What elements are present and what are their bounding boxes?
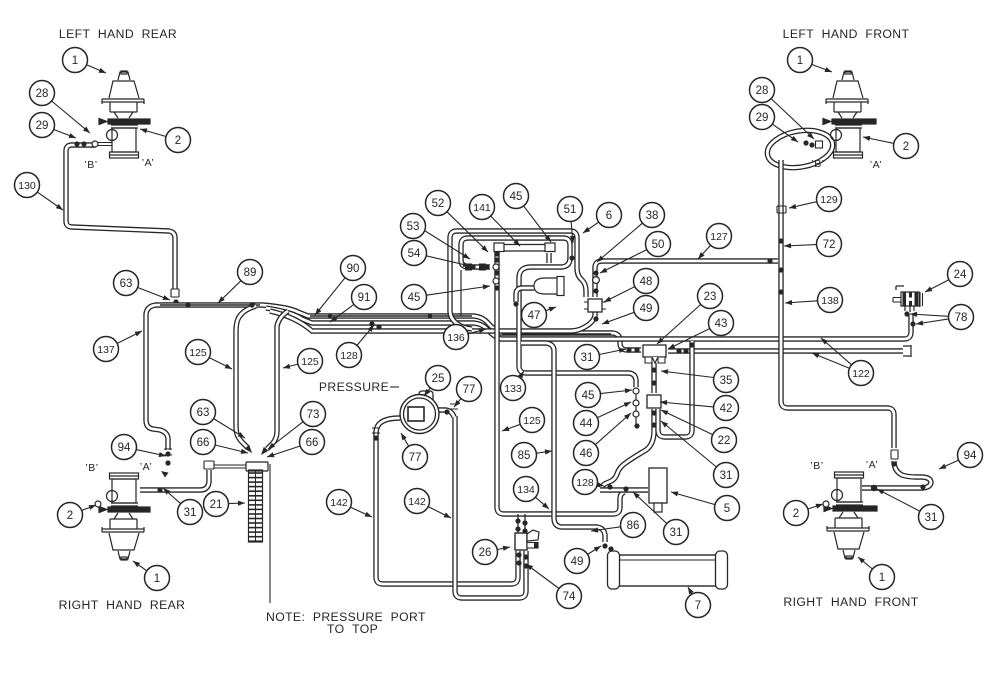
fitting ball	[626, 347, 631, 352]
balloon 38	[640, 203, 665, 228]
fitting ball	[515, 526, 520, 531]
svg-text:94: 94	[118, 442, 131, 454]
pressure tick	[390, 386, 399, 388]
fitting ring	[92, 141, 98, 147]
leader 28b	[771, 99, 814, 139]
svg-text:54: 54	[408, 248, 421, 260]
gauge left conn	[376, 418, 400, 433]
stub 141 right cap	[546, 253, 551, 263]
dark center 90	[310, 315, 472, 317]
fitting ball	[683, 348, 688, 353]
balloon 6	[597, 203, 622, 228]
svg-text:49: 49	[640, 303, 653, 315]
leader 129	[789, 202, 817, 208]
balloon 137	[94, 337, 119, 362]
fitting ball	[471, 265, 475, 269]
fitting ball	[891, 461, 896, 466]
svg-text:73: 73	[307, 409, 320, 421]
svg-text:28: 28	[756, 85, 769, 97]
fitting ring	[633, 411, 639, 417]
svg-text:1: 1	[879, 572, 885, 584]
balloon 142	[327, 490, 352, 515]
svg-text:141: 141	[473, 202, 491, 214]
svg-text:1: 1	[797, 55, 803, 67]
svg-text:142: 142	[408, 496, 426, 508]
balloon 122	[849, 361, 874, 386]
balloon 1	[145, 566, 170, 591]
leader 54	[426, 256, 470, 266]
fitting ball	[904, 311, 909, 316]
svg-text:66: 66	[197, 437, 210, 449]
thin stub x461	[460, 270, 462, 316]
svg-text:1: 1	[154, 573, 160, 585]
svg-text:122: 122	[852, 368, 870, 380]
leader 74	[526, 564, 559, 589]
balloon 63	[191, 400, 216, 425]
svg-text:’B’: ’B’	[810, 460, 823, 472]
leader 125a	[209, 358, 232, 369]
balloon 130	[15, 173, 40, 198]
tube RHR A	[140, 470, 209, 490]
fitting ball	[689, 342, 694, 347]
balloon 89	[238, 260, 263, 285]
fitting ball	[165, 451, 170, 456]
balloon 51	[558, 197, 583, 222]
coiled hose item 21	[249, 470, 263, 542]
fitting ball	[910, 321, 915, 326]
leader 134	[535, 497, 549, 509]
leader 1a	[87, 65, 107, 73]
balloon 35	[714, 368, 739, 393]
svg-text:125: 125	[301, 356, 319, 368]
balloon 72	[817, 232, 842, 257]
svg-text:26: 26	[479, 547, 492, 559]
balloon 7	[686, 593, 711, 618]
svg-text:31: 31	[720, 470, 733, 482]
balloon 44	[574, 411, 599, 436]
balloon 136	[444, 325, 469, 350]
link to coil	[214, 464, 246, 466]
fitting ball	[513, 301, 518, 306]
balloon 45	[402, 285, 427, 310]
tube n-loop	[658, 341, 692, 437]
leader 85	[536, 451, 552, 453]
balloon 47	[522, 303, 547, 328]
fitting ball	[608, 546, 613, 551]
leader 28a	[52, 101, 90, 133]
fitting ball	[185, 302, 190, 307]
fitting ring	[493, 278, 499, 284]
svg-text:2: 2	[793, 508, 799, 520]
svg-text:RIGHT HAND REAR: RIGHT HAND REAR	[59, 598, 186, 612]
valve RH rear	[99, 473, 150, 560]
tube 130	[66, 145, 175, 289]
svg-text:22: 22	[718, 435, 731, 447]
svg-text:74: 74	[563, 591, 576, 603]
balloon 125	[298, 349, 323, 374]
fitting ball	[516, 552, 521, 557]
svg-text:63: 63	[197, 407, 210, 419]
leader 94b	[939, 460, 959, 469]
svg-text:28: 28	[36, 88, 49, 100]
manifold item 26	[515, 533, 527, 550]
svg-text:77: 77	[463, 384, 476, 396]
leader 2a	[140, 129, 166, 137]
balloon 1	[870, 565, 895, 590]
leader 45m	[426, 286, 490, 295]
leader 1b	[133, 561, 147, 571]
balloon 90	[341, 256, 366, 281]
balloon 85	[512, 443, 537, 468]
balloon 31	[664, 520, 689, 545]
leader 29a	[54, 130, 76, 139]
tube 125 right	[267, 311, 288, 449]
balloon 94	[958, 443, 983, 468]
tube chain upper	[651, 363, 656, 393]
fitting ball	[651, 422, 656, 427]
fitting ball	[444, 409, 449, 414]
leader 137	[117, 331, 142, 343]
leader 128b	[597, 485, 604, 486]
tee fitting 42	[647, 395, 661, 408]
leader 127	[698, 245, 711, 259]
svg-text:53: 53	[407, 221, 420, 233]
svg-text:133: 133	[504, 383, 522, 395]
leader 46	[595, 413, 631, 445]
svg-text:38: 38	[646, 210, 659, 222]
leader 94a	[136, 450, 166, 456]
fitting ball	[634, 347, 639, 352]
balloon 23	[698, 284, 723, 309]
fitting ball	[249, 302, 254, 307]
leader 77a	[454, 399, 461, 407]
svg-text:1: 1	[72, 55, 78, 67]
leader 6	[583, 222, 599, 233]
leader 2d	[808, 504, 823, 509]
tube 94 U-turn	[862, 461, 931, 488]
svg-text:6: 6	[606, 210, 612, 222]
fitting ball	[593, 270, 598, 275]
svg-text:31: 31	[184, 507, 197, 519]
balloon 142	[405, 489, 430, 514]
cap end 122	[903, 345, 911, 357]
fitting ball	[809, 142, 814, 147]
svg-text:45: 45	[408, 292, 421, 304]
leader 24	[925, 280, 949, 292]
balloon 31	[714, 463, 739, 488]
tube to manifold 43	[498, 333, 641, 350]
leader 31c	[661, 421, 716, 467]
svg-text:’B’: ’B’	[811, 158, 824, 170]
hose item 141	[503, 245, 546, 252]
fitting ball	[778, 289, 783, 294]
fitting ball	[522, 528, 527, 533]
fitting ring	[633, 388, 639, 394]
valve item 24	[901, 292, 919, 306]
balloon 43	[709, 311, 734, 336]
balloon 46	[574, 441, 599, 466]
svg-text:’A’: ’A’	[866, 459, 878, 471]
leader 2c	[863, 137, 894, 143]
svg-text:PRESSURE: PRESSURE	[319, 380, 389, 394]
leader 125b	[283, 364, 298, 368]
fitting ball	[523, 563, 528, 568]
svg-text:42: 42	[720, 403, 733, 415]
balloon 45	[504, 184, 529, 209]
svg-text:78: 78	[955, 312, 968, 324]
svg-text:7: 7	[695, 600, 701, 612]
leader 89	[218, 281, 241, 303]
svg-text:2: 2	[175, 135, 181, 147]
svg-text:72: 72	[823, 239, 836, 251]
balloon 129	[817, 187, 842, 212]
tube 133 left vert + y514 run	[497, 252, 625, 514]
fitting ball	[485, 265, 489, 269]
leader 42	[660, 402, 714, 407]
leader 1c	[812, 64, 832, 72]
valve LH front	[823, 71, 876, 158]
cap	[204, 461, 214, 469]
svg-text:94: 94	[964, 450, 977, 462]
valve LH rear	[99, 71, 150, 158]
balloon 31	[178, 500, 203, 525]
svg-text:TO TOP: TO TOP	[327, 622, 378, 636]
leader 43	[668, 329, 710, 350]
leader 29b	[772, 124, 798, 142]
leader 21	[229, 502, 246, 505]
balloon 63	[114, 271, 139, 296]
leader 50	[600, 250, 647, 273]
svg-text:51: 51	[564, 204, 577, 216]
tube 127 + x595 upper	[595, 261, 778, 297]
tube 128/49 riser	[270, 311, 595, 331]
svg-text:66: 66	[306, 437, 319, 449]
svg-text:86: 86	[627, 520, 640, 532]
leader 26	[497, 547, 510, 550]
leader 35	[661, 371, 714, 378]
fitting ball	[522, 520, 527, 525]
svg-text:128: 128	[340, 350, 358, 362]
svg-text:125: 125	[189, 347, 207, 359]
leader 63a	[138, 288, 170, 301]
leader 72	[784, 245, 817, 246]
fitting ball	[569, 255, 574, 260]
dark center 89	[160, 304, 260, 306]
tube chain S	[601, 409, 654, 488]
leader 31b	[163, 488, 181, 504]
leader 2b	[82, 505, 96, 511]
svg-text:77: 77	[409, 452, 422, 464]
valve RH front	[824, 472, 877, 559]
fitting ball	[494, 285, 499, 290]
balloon 94	[112, 435, 137, 460]
svg-text:125: 125	[523, 415, 541, 427]
svg-text:31: 31	[670, 527, 683, 539]
balloon 128	[337, 343, 362, 368]
fitting ball	[623, 486, 628, 491]
leader 38	[597, 223, 643, 262]
leader 5	[671, 492, 715, 505]
svg-text:138: 138	[821, 295, 839, 307]
fitting ring	[95, 501, 101, 507]
fitting ball	[602, 543, 607, 548]
svg-text:’B’: ’B’	[84, 159, 97, 171]
balloon 66	[191, 430, 216, 455]
leader 91	[330, 304, 354, 322]
svg-text:48: 48	[640, 276, 653, 288]
leader 66c	[267, 446, 300, 457]
leader 130	[37, 192, 63, 210]
leader 128a	[357, 325, 374, 345]
svg-text:’A’: ’A’	[140, 461, 152, 473]
fitting ball	[173, 299, 178, 304]
leader 73	[268, 422, 303, 449]
svg-text:91: 91	[358, 292, 371, 304]
leader 133	[520, 371, 524, 378]
fitting ball	[515, 518, 520, 523]
fitting ball	[516, 560, 521, 565]
svg-text:136: 136	[447, 332, 465, 344]
svg-text:127: 127	[710, 231, 728, 243]
leader 49	[602, 312, 634, 324]
balloon 42	[714, 396, 739, 421]
fitting ball	[803, 140, 808, 145]
svg-text:31: 31	[925, 512, 938, 524]
svg-text:24: 24	[954, 269, 967, 281]
fitting ball	[778, 267, 783, 272]
leader 52	[447, 212, 488, 252]
leader 138	[785, 301, 818, 303]
fitting ball	[778, 238, 783, 243]
svg-text:47: 47	[528, 310, 541, 322]
balloon 125	[520, 408, 545, 433]
leader 45t	[524, 206, 551, 242]
leader 90	[315, 278, 345, 315]
balloon 127	[707, 224, 732, 249]
balloon 29	[30, 113, 55, 138]
tube 122 lower	[668, 348, 903, 353]
svg-text:50: 50	[652, 239, 665, 251]
svg-text:90: 90	[347, 263, 360, 275]
fitting ball	[767, 258, 772, 263]
fitting ball	[428, 314, 432, 318]
fitting ball	[494, 251, 499, 256]
balloon 2	[784, 501, 809, 526]
svg-text:52: 52	[432, 198, 445, 210]
cap 94	[891, 450, 898, 459]
balloon 48	[634, 269, 659, 294]
leader 142b	[428, 507, 451, 518]
fitting ball	[494, 257, 499, 262]
balloon 24	[948, 262, 973, 287]
balloon 125	[186, 340, 211, 365]
svg-text:23: 23	[704, 291, 717, 303]
leader 31e	[877, 489, 920, 511]
svg-text:46: 46	[580, 448, 593, 460]
fitting ball	[523, 554, 528, 559]
svg-text:5: 5	[724, 503, 730, 515]
leader 125c	[502, 424, 520, 431]
fitting 48	[588, 299, 602, 312]
svg-text:29: 29	[756, 112, 769, 124]
balloon 86	[621, 513, 646, 538]
balloon 5	[715, 496, 740, 521]
svg-text:’A’: ’A’	[870, 159, 882, 171]
leader 47	[546, 307, 556, 311]
leader 48	[604, 287, 635, 302]
branch stub	[635, 390, 637, 426]
balloon 21	[204, 492, 229, 517]
balloon 133	[501, 376, 526, 401]
leader 78	[910, 314, 949, 316]
svg-text:44: 44	[580, 418, 593, 430]
tube 47 feed	[516, 288, 534, 302]
fitting ball	[920, 484, 925, 489]
leader 44	[597, 402, 631, 418]
svg-text:137: 137	[97, 344, 115, 356]
fitting ball	[328, 314, 332, 318]
fit 77b	[372, 428, 380, 433]
svg-text:31: 31	[581, 352, 594, 364]
fitting ball	[651, 367, 656, 372]
muffler item 7	[619, 555, 716, 586]
link to coil 2	[214, 467, 246, 469]
leader 66b	[215, 445, 248, 453]
fitting ball	[494, 270, 499, 275]
svg-text:’A’: ’A’	[142, 157, 154, 169]
balloon 31	[575, 345, 600, 370]
leader 7	[688, 587, 692, 594]
check valve item 47	[534, 278, 558, 294]
svg-text:35: 35	[720, 375, 733, 387]
leader 31d	[633, 492, 667, 524]
balloon 28	[30, 81, 55, 106]
leader 122	[821, 338, 852, 365]
balloon 50	[646, 232, 671, 257]
balloon 53	[401, 214, 426, 239]
fitting ball	[593, 288, 598, 293]
tube 6 outer U	[450, 231, 586, 329]
svg-text:2: 2	[67, 510, 73, 522]
balloon 1	[788, 48, 813, 73]
svg-text:63: 63	[120, 278, 133, 290]
fitting ring	[593, 277, 600, 284]
tube 137	[146, 305, 168, 450]
svg-text:128: 128	[576, 477, 594, 489]
svg-text:43: 43	[715, 318, 728, 330]
svg-text:134: 134	[517, 484, 535, 496]
svg-text:45: 45	[510, 191, 523, 203]
svg-text:’B’: ’B’	[85, 462, 98, 474]
leader 86	[591, 527, 621, 531]
fitting ball	[676, 348, 681, 353]
valve item 5	[649, 468, 667, 503]
leader 142a	[350, 507, 372, 517]
balloon 22	[712, 428, 737, 453]
leader 45b	[600, 390, 632, 394]
svg-text:25: 25	[432, 373, 445, 385]
balloon 52	[426, 191, 451, 216]
manifold item 43	[643, 345, 666, 357]
tube 86/134	[521, 343, 605, 542]
fitting ball	[634, 423, 639, 428]
tube 45/44 branch	[519, 278, 636, 387]
balloon 78	[949, 305, 974, 330]
balloon 74	[557, 584, 582, 609]
leader 31a	[599, 349, 626, 355]
tube into item5	[600, 487, 648, 492]
fitting ball	[651, 410, 656, 415]
